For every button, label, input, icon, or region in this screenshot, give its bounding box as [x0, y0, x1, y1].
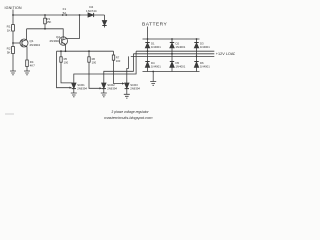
- diode D8 lower col2: [170, 62, 174, 68]
- resistor R3: [44, 15, 47, 29]
- node R5 top junction: [60, 50, 62, 52]
- resistor R7: [112, 51, 122, 83]
- ground SCR1: [71, 93, 77, 97]
- node R3 bottom junction: [44, 28, 46, 30]
- node bridge col2 top: [171, 38, 173, 40]
- SCR2: [102, 83, 106, 93]
- wire phase B to stator: [133, 53, 214, 55]
- resistor R5: [60, 51, 73, 83]
- wire top rail: [13, 14, 105, 16]
- svg-text:2N3904: 2N3904: [30, 43, 41, 47]
- node phase A tap: [147, 50, 149, 52]
- svg-text:+12V LOAD: +12V LOAD: [216, 52, 235, 56]
- node phase C tap: [196, 56, 198, 58]
- svg-text:5K: 5K: [7, 51, 11, 55]
- svg-text:100: 100: [64, 60, 69, 64]
- ground SCR3: [124, 94, 130, 98]
- label R6 value: [92, 57, 97, 64]
- svg-text:15K: 15K: [47, 20, 52, 24]
- fuse F1 on rail: [62, 14, 67, 16]
- wire bridge negative bus: [143, 71, 200, 73]
- wire bridge column 1: [147, 39, 149, 72]
- node bridge col3 top: [196, 38, 198, 40]
- svg-text:BATTERY: BATTERY: [142, 22, 168, 28]
- label R4 value: [30, 60, 35, 67]
- svg-text:1N4001: 1N4001: [176, 64, 186, 68]
- svg-text:100: 100: [116, 59, 121, 63]
- label SCR1: [77, 83, 87, 90]
- diode D1: [145, 43, 149, 48]
- label SCR2: [107, 83, 117, 90]
- resistor R4 (Q1 emitter): [26, 60, 29, 67]
- node collector-rail junction: [79, 14, 81, 16]
- resistor R1: [12, 25, 15, 31]
- wire ignition column: [12, 10, 14, 72]
- label D1: [151, 42, 161, 49]
- label D8: [176, 61, 186, 68]
- wire SCR1 gate feed: [57, 51, 70, 87]
- label D3: [200, 42, 210, 49]
- wire Q1 base: [13, 42, 20, 44]
- ground bridge: [150, 82, 156, 86]
- wire R4 to ground: [26, 67, 28, 72]
- ground G2: [24, 71, 30, 75]
- label R7 value: [116, 56, 121, 63]
- node SCR1 gate arrow: [70, 87, 73, 89]
- wire gate bus: [57, 50, 114, 52]
- wire Q2 collector to rail: [79, 15, 81, 39]
- wire rail corner down: [104, 15, 106, 21]
- svg-text:2N6394: 2N6394: [107, 87, 117, 91]
- wire battery to bus: [147, 27, 149, 40]
- node ground tap: [152, 71, 154, 73]
- node base junction: [12, 42, 14, 44]
- svg-text:1N4001: 1N4001: [176, 45, 186, 49]
- label Q2: [49, 35, 60, 43]
- wire phase A lower run: [74, 51, 136, 83]
- wire phase C to stator: [131, 55, 215, 57]
- label F1: [63, 7, 67, 15]
- label D2: [176, 42, 186, 49]
- transistor Q2: [59, 37, 79, 51]
- node bridge col1 top: [147, 38, 149, 40]
- svg-text:2N6394: 2N6394: [130, 87, 140, 91]
- label R1 value: [7, 25, 11, 33]
- svg-text:mastercircuits.blogspot.com: mastercircuits.blogspot.com: [104, 115, 153, 120]
- ground SCR2: [101, 93, 107, 97]
- svg-text:4K7: 4K7: [30, 63, 35, 67]
- svg-text:100: 100: [92, 60, 97, 64]
- resistor R6: [88, 51, 100, 88]
- svg-text:5A: 5A: [63, 11, 67, 15]
- svg-text:1N4001: 1N4001: [200, 45, 210, 49]
- svg-text:1N4001: 1N4001: [151, 64, 161, 68]
- wire bridge positive bus: [143, 38, 200, 40]
- SCR3: [125, 83, 129, 94]
- diode D5 to ground: [102, 21, 106, 28]
- svg-text:1N4001: 1N4001: [151, 45, 161, 49]
- label R2 value: [7, 47, 11, 55]
- wire phase A to stator: [136, 50, 214, 52]
- svg-text:1N4744: 1N4744: [86, 9, 97, 13]
- node SCR2 gate arrow: [100, 87, 103, 89]
- ground G1: [10, 71, 16, 75]
- wire negative bus to ground: [152, 72, 154, 82]
- wire phase B lower run: [104, 54, 134, 83]
- label Q1: [30, 39, 41, 47]
- node Q2 emitter junction: [65, 50, 67, 52]
- diode D7 lower col1: [145, 62, 149, 68]
- zener diode D4: [88, 13, 94, 17]
- diode D3: [194, 43, 198, 48]
- wire Q1 collector to Q2 base: [27, 29, 64, 37]
- node SCR3 gate arrow: [122, 82, 125, 84]
- wire phase C lower run: [127, 56, 129, 83]
- label SCR3: [130, 83, 140, 90]
- transistor Q1: [20, 29, 28, 60]
- svg-text:IGNITION: IGNITION: [5, 6, 22, 10]
- label D9: [200, 61, 210, 68]
- SCR1: [72, 83, 76, 93]
- wire bridge column 2: [171, 39, 173, 72]
- svg-text:1K: 1K: [7, 29, 11, 33]
- node R3 top junction: [44, 14, 46, 16]
- artifact dash: [5, 113, 14, 115]
- svg-text:3 phase voltage regulator: 3 phase voltage regulator: [111, 110, 149, 114]
- node phase B tap: [171, 53, 173, 55]
- svg-text:1N4001: 1N4001: [200, 64, 210, 68]
- resistor R2: [12, 47, 15, 54]
- svg-text:2N6394: 2N6394: [77, 87, 87, 91]
- node R6 top junction: [88, 50, 90, 52]
- node rail-ignition junction: [12, 14, 14, 16]
- diode D9 lower col3: [194, 62, 198, 68]
- diode D2: [170, 43, 174, 48]
- wire bridge column 3: [196, 39, 198, 72]
- label D4: [86, 5, 97, 13]
- label D7: [151, 61, 161, 68]
- label R5 value: [64, 57, 69, 64]
- svg-text:2N3904: 2N3904: [49, 39, 60, 43]
- label R3 value: [47, 17, 52, 24]
